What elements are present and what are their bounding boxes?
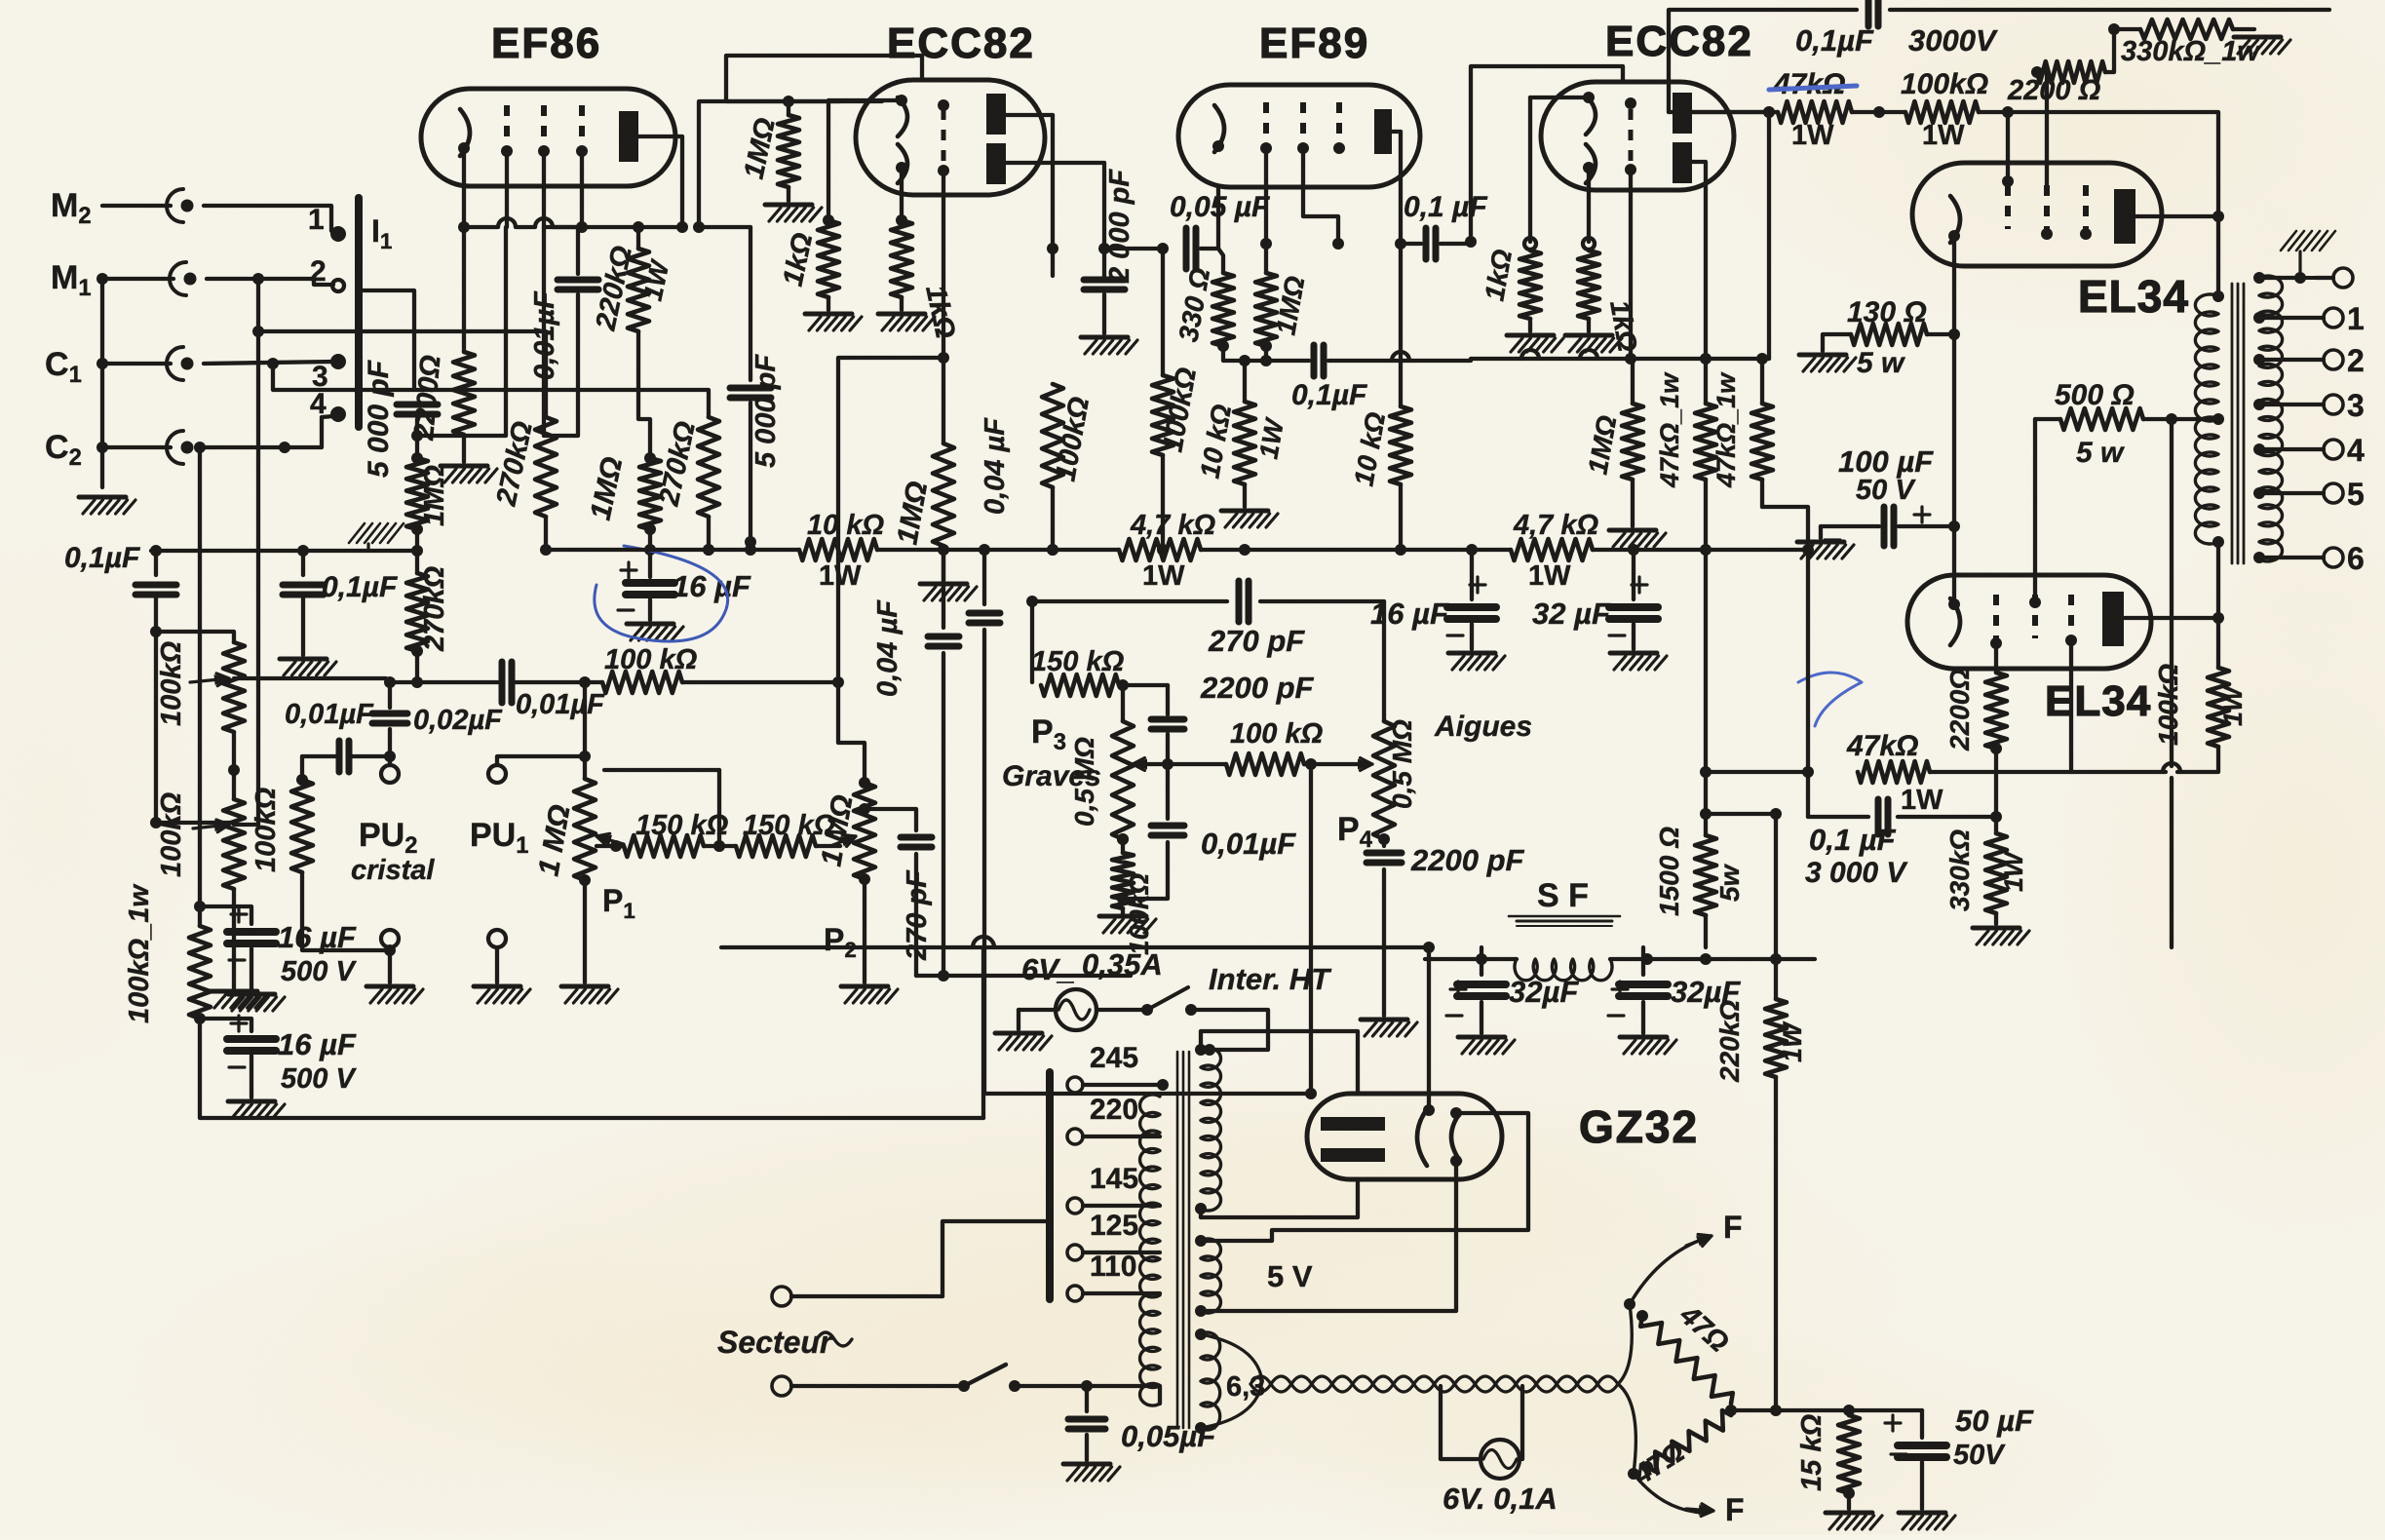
ground 32µF a [1458,1035,1505,1040]
resistor 100kΩ 1W row [1905,101,1979,123]
long vertical M1 column [256,283,260,825]
twist to upper F branch [1618,1304,1632,1384]
wire EL34 g2 up to 2200 [2037,72,2047,185]
wire GZ32 anode2 to HT bottom [1201,1179,1358,1217]
wire pot2 wiper link [234,823,258,827]
wire plate b to coupling node [1006,161,1104,165]
wire 150k to 2200pF [1119,683,1168,687]
wire ECC82 top loop [726,56,922,101]
capacitor 0,1µF #2 [283,582,324,589]
resistor 1500Ω 5W [1695,835,1716,915]
lamp filament [1058,1000,1090,1020]
wire plate b down [1692,162,1706,359]
lead [1470,550,1474,599]
wire to 16µF #1 [194,901,206,912]
wire cathode b down [900,168,904,220]
resistor 47kΩ 1W row [1778,101,1852,123]
EF86 plate [619,111,638,162]
switch contact secteur [1009,1380,1020,1392]
lead [1843,1487,1855,1499]
wire 2200Ω to ground [462,435,466,462]
wire 220k to 1M column [638,331,650,458]
ECC82#2 cathode a [1586,96,1596,135]
wire plate node down [2216,618,2220,668]
capacitor 32µF b [1619,981,1668,988]
capacitor 0,1µF #1 [135,582,176,589]
wire to 1M [1631,359,1635,404]
switch contact [1185,1004,1197,1016]
wire M2 to contact 1 [204,206,335,233]
resistor 47Ω a [1640,1316,1733,1404]
ground 1MΩ #2 [1609,528,1656,533]
resistor 1MΩ #2 [1622,404,1643,480]
wire row1 to right [682,680,838,684]
secondary ground [2281,231,2296,250]
EL34 upper g2 [2044,185,2050,229]
lamp2 filament [1483,1450,1517,1469]
wire C1 to contact 3 [204,362,333,364]
resistor 47kΩ 1W b [1751,404,1773,480]
wire M2 label to jack [102,204,171,208]
secteur AC symbol [817,1332,852,1346]
resistor 1MΩ EF89 [1255,273,1277,346]
wire 270pF down [914,854,918,976]
EF89 plate [1374,109,1392,154]
power transformer primary coil [1140,1095,1160,1405]
wire x1010 down [982,550,986,604]
wire primary bottom to plate [2216,542,2220,618]
wire 5000pF to bus [749,403,752,542]
resistor 100kΩ 1W left [189,926,211,1019]
potentiometer P4 0,5MΩ Aigues [1382,601,1386,721]
resistor 47Ω b [1647,1410,1731,1472]
wire x1010 down 2 [982,630,986,1094]
tap 2 wire [2259,358,2324,362]
wire cap to PU2 node [352,754,390,758]
wire EF86 g2 down [542,151,546,227]
ECC82#2 heater dashes [1629,109,1634,164]
lamp 6V 0,35A [1056,989,1096,1030]
wire to F bottom [1634,1474,1704,1513]
wire cathode a [1530,96,1589,99]
ground lamp [995,1031,1042,1036]
ground PU2 [366,984,413,989]
wire to 10kΩ [1243,361,1247,402]
wire row1 mid [514,680,602,684]
wire 100µF right [1899,524,1954,528]
wire bus to cap 2 [301,551,305,575]
ECC82#1 cathode a [898,97,907,136]
ground 32µF filter [1610,651,1657,656]
GZ32 anode 2 [1321,1148,1385,1162]
EL34 lower plate [2102,592,2124,646]
wire grid1 entry [840,99,882,103]
capacitor 0,01µF PU2 [336,741,343,772]
EF86 cathode [460,109,470,156]
terminal tap 245 [1067,1077,1083,1093]
capacitor 5000pF input [397,402,438,408]
EF89 grid 3 [1336,102,1342,141]
wire 47k a to bus [1704,480,1708,550]
wire 0,05µF to EF89 grid [1201,187,1218,249]
terminal tap 1 [2324,308,2343,327]
wire C2 to contact 4 [200,416,333,447]
SF choke coil [1515,959,1612,981]
wire x1437 down [1399,244,1403,406]
resistor 150kΩ #2 [736,835,816,857]
wire top bus right end [1890,8,2329,12]
wiper arrow P4 [1350,762,1372,765]
ground 1MΩ grid [920,582,967,587]
tap 0 wire [2259,276,2300,280]
resistor 270kΩ grid EF86 [406,573,428,651]
wire x400 down [388,682,392,708]
wire cap to grid node [415,419,419,436]
contact 1 [330,226,346,242]
terminal tap 2 [2324,350,2343,369]
ground 1kΩ #2a [1507,333,1554,338]
ground 2200Ω [441,464,487,469]
wire cap to pot 1 [156,598,234,642]
EL34 lower plate lead [2124,616,2218,620]
wire pot2 wiper link [717,770,721,846]
contact 4 [330,406,346,422]
wire 1M to y370 [1264,346,1268,361]
EL34 lower g3 [2068,595,2074,638]
ground P1 [561,984,608,989]
terminal tap 3 [2324,395,2343,414]
wire bus to 16µF [648,550,652,577]
terminal PU2 bottom [381,930,399,947]
wire g2 to 0,01µF [544,227,578,274]
terminal tap0 [2333,268,2353,288]
tube ECC82 #1 envelope [856,80,1045,195]
wiper arrow P3 [1133,762,1155,765]
lamp 6V 0,1A [1481,1440,1519,1479]
wire 270pF to P4 [1260,599,1384,603]
EF86 grid 3 [579,105,585,144]
wire P1 to ground [579,874,591,886]
capacitor 0,01µF row1 [499,662,506,703]
wire GZ32 filament to 5V a [1201,1113,1528,1241]
resistor 1kΩ #2b [1578,250,1599,319]
lead [1920,1462,1924,1509]
wire pot2 to ground [232,889,236,988]
wire PU2 to ground [388,947,392,982]
resistor 47kΩ 1W a [1695,404,1716,480]
lead [1243,484,1247,507]
wire switch to HT top [1191,1010,1268,1050]
wire 47k lower right [1930,770,2166,774]
wire 500 left [2035,417,2060,421]
wire top bus left corner [1669,10,1857,112]
ground 15kΩ [1826,1511,1872,1516]
wire 270k to row [415,651,419,682]
resistor 100kΩ b [1152,375,1173,455]
wire pin2 down to 447 [542,227,546,436]
wire 145 [1083,1204,1160,1208]
ground 2000pF [1081,335,1128,340]
wire 16µF to ground [648,599,652,620]
wire 270k #1 to bus [544,517,548,550]
resistor 2200Ω right [2037,61,2105,83]
input jack M2 [167,189,183,222]
wire to 15k [1776,1408,1849,1412]
capacitor 32µF a [1457,981,1506,988]
wire SF right [1610,957,1815,961]
wire to 150k [1030,601,1034,682]
wire x1009 up [981,947,985,1118]
wire EF89 g1 down [1264,148,1268,244]
output transformer secondary [2259,276,2283,561]
wire tap0 [2316,276,2333,280]
wire 220 [1083,1135,1160,1138]
wire 1M to bus [648,529,652,550]
resistor 1MΩ cathode col [639,458,661,529]
wire bus to right section [1593,548,1808,552]
ground 1kΩ b [878,312,925,317]
resistor 100kΩ P3 foot [1112,853,1134,908]
wire lower cathode up [1952,526,1956,604]
GZ32 filament arc b [1451,1113,1460,1161]
wire EF89 g3 jog [1303,148,1338,244]
wire 500 right to center tap [2143,417,2218,421]
ground P3 foot [1099,914,1146,919]
capacitor 0,1µF coupling [1423,228,1430,259]
blue pen stroke 47k [1769,86,1857,90]
input jack C1 [167,347,183,380]
wiper arrow pot 2 [193,825,229,828]
tube EL34 lower envelope [1907,575,2151,669]
wire to 0,01µF tone [1166,764,1170,819]
wiper arrow P1 [596,836,624,844]
switch pivot secteur [958,1380,970,1392]
stub [1051,249,1055,276]
wire plate to coupling bus [699,101,840,227]
tube EL34 upper envelope [1912,163,2162,266]
plus 16µF #2 [231,1021,247,1024]
wire cathode down [1952,236,1956,334]
wire mid down to y368 [1629,170,1633,359]
potentiometer P2 1MΩ [854,783,875,879]
wire to F top [1630,1240,1701,1304]
wire EF86 g1 down [505,151,509,227]
lead [1994,913,1998,924]
wire y1001 [943,974,1131,978]
wire 2200pF down [1166,734,1170,764]
arrow F bottom [1686,1509,1713,1511]
SF core lines [1517,920,1612,923]
wire 330 to y370 [1223,346,1245,361]
capacitor 16µF 500V #2 [227,1035,276,1043]
capacitor 0,05µF mains [1068,1416,1105,1423]
wire wiper bus [1140,762,1226,766]
EL34 lower g2 [2032,595,2038,638]
plus 16µF #1 [231,912,247,915]
resistor 150kΩ #1 [624,835,704,857]
leads 2000pF [1102,249,1106,276]
resistor 1MΩ EF86 out [778,115,799,187]
wire secteur top [791,1294,942,1298]
potentiometer P1 1MΩ [574,779,596,880]
leads 1MΩ [787,101,790,115]
GZ32 filament arc a [1417,1109,1427,1166]
wire GZ32 anode1 to HT top [1201,1031,1358,1094]
long bottom-left bus [200,1019,983,1118]
wire 2200 left [2035,70,2037,74]
wire 125 [1083,1251,1160,1254]
wire plate node [1395,238,1406,250]
ECC82#2 cathode b [1586,144,1596,183]
wire 220k down to F node [1774,1077,1778,1410]
resistor 220kΩ 1W [628,249,649,331]
lead [1641,1002,1645,1033]
wire 2200pF down [1382,869,1386,1016]
output transformer core [2231,284,2234,563]
wire pot1 to pot2 [232,732,236,799]
wire to 16µF #2 [194,1013,206,1024]
wire lamp right [1096,1008,1147,1012]
EL34 upper g3 [2083,185,2089,229]
plus 16µF filter [1470,583,1485,586]
wire x1750 down [1706,550,1776,814]
wire x1193 down [1161,249,1165,375]
wire 270pF join [916,974,943,978]
terminal PU1 top [488,765,506,783]
switch pivot [1141,1004,1153,1016]
wire SF left [1425,957,1517,961]
wire 100k b to bus [1161,455,1165,550]
wire P2 to ground [863,879,866,982]
vertical input ground bus [96,273,108,285]
potentiometer P3 0,5MΩ [1121,685,1125,721]
lead [1480,1002,1483,1033]
wire y370 left [1245,359,1309,363]
wire 47k b to bus [1760,480,1764,507]
resistor 15kΩ [1838,1415,1860,1493]
EF86 grid 1 [504,105,510,144]
capacitor 2000pF [1084,277,1125,284]
resistor 100kΩ tone [1226,753,1304,775]
lead [1480,947,1483,975]
wire 1M to 270k [415,529,419,573]
wire M1 node to 270k #1 [258,331,546,417]
capacitor 5000pF #2 [730,385,771,392]
wire row1 left [390,680,500,684]
ground 16µF bypass [627,622,673,627]
wire to 330k [1994,817,1998,833]
lead [1121,839,1125,853]
ground 10kΩ [1221,509,1268,514]
wire to 0,05µF [1085,1386,1089,1411]
resistor 100kΩ plate a [1042,384,1063,487]
GZ32 anode 1 [1321,1117,1385,1131]
capacitor 0,05µF [1183,228,1190,269]
tone top wire [1026,596,1038,607]
wire x1855 bus to 47k row [1806,550,1810,772]
resistor 1MΩ grid ECC82 [933,443,954,546]
EF86 pin bus [464,225,497,229]
HT secondary coil [1201,1048,1221,1211]
wire bus to cap [154,551,158,575]
wire 16µF #1 to ground [250,948,253,990]
terminal PU2 top [381,765,399,783]
plus 16µF bypass [621,568,636,571]
wire 270k #2 to bus [707,517,711,550]
output transformer primary [2195,294,2218,544]
resistor 220kΩ 1W right [1765,999,1787,1077]
wire M1 to contact 2 [207,279,333,285]
wire x2228 down lower [2170,778,2173,947]
wire lamp2 left [1441,1386,1481,1459]
terminal tap 5 [2324,483,2343,503]
wire to 47k b [1760,359,1764,404]
resistor 10kΩ 1W [799,539,877,560]
paper stains [1676,0,2385,351]
wire x400 to PU2 [388,729,392,765]
EF86 grid 2 [541,105,547,144]
input jack M1 [170,262,186,295]
ECC82#1 heater dashes [942,109,946,166]
wire 47k lower left [1706,770,1808,774]
wire grid node to EF86 grid [417,227,506,436]
lead gnd [1819,526,1823,538]
EF89 grid 2 [1300,102,1306,141]
node C2 [198,445,202,449]
wire 100k bottom to PU2 [302,872,390,950]
wire x968 down 2 [942,653,945,976]
capacitor 50µF 50V [1898,1442,1946,1449]
wire x1822 down [1774,814,1778,947]
resistor 4,7kΩ 1W #1 [1119,539,1201,560]
blue pen mark 2 [1798,673,1862,726]
resistor 47kΩ 1W lower [1858,761,1930,783]
wire x2228 down upper [2170,419,2173,766]
wire 0,01µF to P3 foot [1123,842,1168,899]
capacitor 0,1µF EF89 [1311,345,1318,376]
capacitor 0,04µF b [969,610,1000,617]
capacitor 0,01µF tone [1151,823,1184,829]
wire pot1 wiper to row [234,678,390,682]
switch blade secteur [964,1365,1006,1386]
leads 1M grid [415,436,419,458]
twist to lower F branch [1618,1384,1635,1474]
ground 16µF #1 [228,992,275,997]
power transformer primary bar [1046,1072,1054,1299]
wire 150k to P2 arrow [816,844,840,848]
terminal 1kΩ b [1583,238,1595,250]
lead [1587,319,1591,331]
wire C1 node to 270k #2 [273,364,709,417]
ground 100µF [1797,540,1844,545]
tap 3 wire [2259,403,2324,406]
lead [1017,1010,1020,1029]
terminal tap 125 [1067,1245,1083,1260]
wire tone bottom [984,1092,1307,1096]
5V secondary coil [1201,1239,1220,1313]
wire to 1MΩ EF89 [1264,244,1268,273]
wire to 220k [1774,947,1778,999]
ground 0,1µF #2 [280,657,327,662]
wire 50µF top [1920,1410,1924,1438]
wiper arrow pot 1 [190,678,229,682]
resistor 1kΩ a [818,220,839,297]
wire 10k b to bus [1399,484,1403,550]
bus y368 [1471,357,1769,361]
terminal tap 110 [1067,1286,1083,1301]
capacitor 2200pF P4 [1366,850,1402,857]
wire row to 100k fb [2177,747,2218,772]
